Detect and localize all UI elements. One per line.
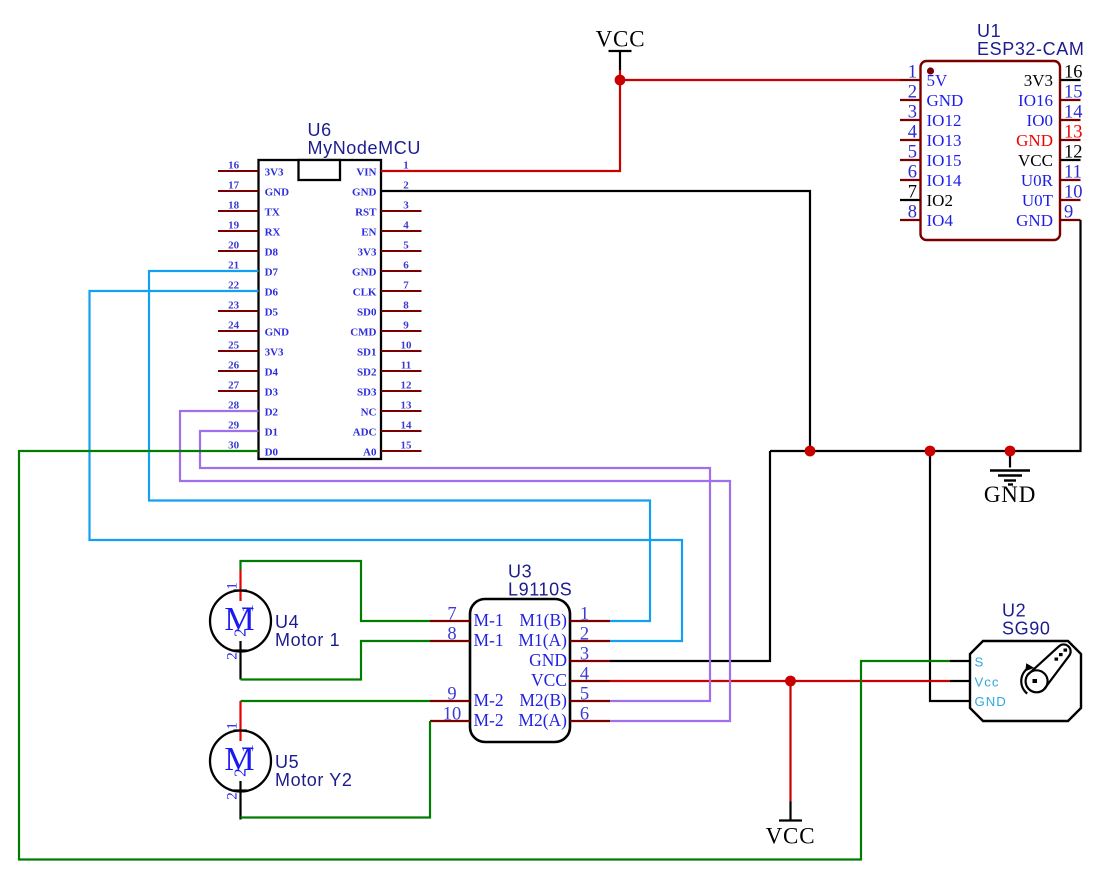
- U6 pin 14 (ADC): [381, 430, 422, 432]
- U6 pin 4 (EN): [381, 230, 422, 232]
- svg-text:Motor Y2: Motor Y2: [275, 770, 353, 790]
- U6 pin 13 (NC): [381, 410, 422, 412]
- junction GND at x1010: [1005, 446, 1016, 457]
- svg-text:27: 27: [228, 379, 240, 391]
- svg-text:GND: GND: [265, 326, 290, 338]
- svg-text:D5: D5: [265, 306, 279, 318]
- junction GND at x930: [925, 446, 936, 457]
- svg-text:20: 20: [228, 239, 240, 251]
- svg-text:GND: GND: [529, 650, 567, 670]
- svg-text:30: 30: [228, 439, 240, 451]
- U6 pin 5 (3V3): [381, 250, 422, 252]
- U3 pin 1 (M1(B)): [570, 620, 610, 622]
- svg-text:5: 5: [403, 239, 409, 251]
- svg-text:U0R: U0R: [1021, 171, 1054, 190]
- U6 pin 24 (GND): [218, 330, 259, 332]
- U6 pin 16 (3V3): [218, 170, 259, 172]
- svg-text:CLK: CLK: [353, 286, 377, 298]
- svg-text:2: 2: [403, 179, 409, 191]
- svg-text:D3: D3: [265, 386, 279, 398]
- U1 pin 16 (3V3): [1060, 79, 1081, 81]
- servo U2 SG90: [950, 600, 1081, 721]
- svg-text:VCC: VCC: [531, 670, 567, 690]
- wire U6 D7 to U3 M1(B) pin1 (blue): [149, 271, 650, 621]
- svg-text:10: 10: [401, 339, 413, 351]
- U6 pin 25 (3V3): [218, 350, 259, 352]
- svg-text:2: 2: [580, 625, 589, 645]
- svg-text:26: 26: [228, 359, 240, 371]
- U6 pin 23 (D5): [218, 310, 259, 312]
- svg-text:4: 4: [908, 123, 917, 143]
- power flag VCC (top): [596, 27, 646, 71]
- svg-text:3V3: 3V3: [1024, 71, 1053, 90]
- wire U6 GND to GND net (black): [381, 191, 810, 451]
- U1 pin 4 (IO13): [900, 139, 921, 141]
- svg-text:ESP32-CAM: ESP32-CAM: [977, 39, 1084, 59]
- svg-text:RX: RX: [265, 226, 281, 238]
- U2 servo horn graphic: [1026, 670, 1048, 692]
- U1 pin 15 (IO16): [1060, 99, 1081, 101]
- wire GND net to U3 GND pin3 (black): [610, 451, 770, 661]
- svg-text:TX: TX: [265, 206, 280, 218]
- U3 pin 7 (M-1): [430, 620, 470, 622]
- svg-text:8: 8: [908, 203, 917, 223]
- U1 pin 3 (IO12): [900, 119, 921, 121]
- power flag VCC (bottom): [766, 801, 816, 849]
- svg-text:D4: D4: [265, 366, 279, 378]
- svg-text:9: 9: [403, 319, 409, 331]
- svg-text:25: 25: [228, 339, 240, 351]
- svg-text:VCC: VCC: [1018, 151, 1053, 170]
- svg-text:3: 3: [403, 199, 409, 211]
- wire GND net to U2 GND (black): [930, 451, 950, 701]
- junction GND at x810: [805, 446, 816, 457]
- svg-text:12: 12: [401, 379, 413, 391]
- U6 pin 19 (RX): [218, 230, 259, 232]
- U1 pin 9 (GND): [1060, 219, 1081, 221]
- svg-text:SD3: SD3: [357, 386, 377, 398]
- svg-text:U0T: U0T: [1022, 191, 1054, 210]
- svg-text:14: 14: [401, 419, 413, 431]
- svg-text:M-2: M-2: [474, 690, 504, 710]
- wire VCC to U6 VIN (red): [381, 80, 620, 171]
- svg-text:19: 19: [228, 219, 240, 231]
- svg-text:6: 6: [403, 259, 409, 271]
- svg-text:9: 9: [1064, 203, 1073, 223]
- svg-text:1: 1: [225, 582, 241, 590]
- svg-text:SG90: SG90: [1002, 619, 1050, 639]
- svg-text:M-1: M-1: [474, 610, 504, 630]
- svg-text:6: 6: [908, 163, 917, 183]
- svg-text:NC: NC: [361, 406, 377, 418]
- wire U6 D0 to U2 S servo signal (green): [19, 451, 950, 860]
- svg-text:4: 4: [580, 665, 589, 685]
- svg-text:1: 1: [580, 605, 589, 625]
- U2 pin Vcc: [950, 680, 970, 682]
- U3 pin 8 (M-1): [430, 640, 470, 642]
- U6 pin 27 (D3): [218, 390, 259, 392]
- svg-text:17: 17: [228, 179, 240, 191]
- svg-text:M2(B): M2(B): [519, 690, 567, 710]
- svg-text:5: 5: [580, 685, 589, 705]
- wire U5 pin1 to U3 pin9 (green): [241, 700, 431, 702]
- svg-text:M2(A): M2(A): [518, 710, 567, 730]
- U6 pin 17 (GND): [218, 190, 259, 192]
- svg-text:7: 7: [908, 183, 917, 203]
- svg-text:SD2: SD2: [357, 366, 377, 378]
- svg-text:D6: D6: [265, 286, 279, 298]
- svg-text:GND: GND: [352, 266, 377, 278]
- svg-text:10: 10: [443, 705, 462, 725]
- wire VCC to U1 pin1 (red): [619, 70, 621, 80]
- svg-text:GND: GND: [1016, 211, 1053, 230]
- U1 pin 12 (VCC): [1060, 159, 1081, 161]
- svg-text:D7: D7: [265, 266, 279, 278]
- motor U4: [210, 570, 340, 680]
- svg-text:28: 28: [228, 399, 240, 411]
- U6 pin 8 (SD0): [381, 310, 422, 312]
- svg-text:GND: GND: [984, 482, 1036, 507]
- svg-text:1: 1: [238, 604, 257, 613]
- svg-text:VCC: VCC: [596, 27, 646, 52]
- U5 pin 2 stub: [239, 781, 241, 820]
- U4 pin 1 stub: [239, 570, 241, 601]
- svg-text:13: 13: [401, 399, 413, 411]
- U1 pin 13 (GND): [1060, 139, 1081, 141]
- svg-text:3: 3: [580, 645, 589, 665]
- svg-text:13: 13: [1064, 123, 1083, 143]
- svg-text:9: 9: [447, 685, 456, 705]
- svg-text:VCC: VCC: [766, 824, 816, 849]
- svg-text:12: 12: [1064, 143, 1083, 163]
- svg-text:10: 10: [1064, 183, 1083, 203]
- svg-text:22: 22: [228, 279, 240, 291]
- svg-text:IO13: IO13: [927, 131, 962, 150]
- U1 pin 1 (5V): [900, 79, 921, 81]
- svg-text:3V3: 3V3: [265, 346, 284, 358]
- svg-text:2: 2: [908, 83, 917, 103]
- svg-text:5V: 5V: [927, 71, 949, 90]
- U2 pin S: [950, 660, 970, 662]
- U4 pin 2 stub: [239, 641, 241, 680]
- U1 pin 11 (U0R): [1060, 179, 1081, 181]
- wire U6 D2 to U3 M2(A) pin6 (purple): [180, 411, 730, 721]
- svg-text:VIN: VIN: [356, 166, 376, 178]
- svg-text:GND: GND: [975, 694, 1007, 709]
- U1 pin 14 (IO0): [1060, 119, 1081, 121]
- svg-text:3: 3: [908, 103, 917, 123]
- svg-text:Vcc: Vcc: [975, 674, 1000, 689]
- wire VCC bottom riser (red): [789, 681, 791, 802]
- wire U5 pin2 to U3 pin10 (green): [241, 721, 431, 818]
- svg-text:SD1: SD1: [357, 346, 377, 358]
- svg-text:15: 15: [1064, 83, 1083, 103]
- svg-text:7: 7: [403, 279, 409, 291]
- svg-text:CMD: CMD: [350, 326, 376, 338]
- svg-text:15: 15: [401, 439, 413, 451]
- IC U3 L9110S: [430, 562, 610, 743]
- svg-text:U3: U3: [508, 562, 532, 582]
- U6 pin 7 (CLK): [381, 290, 422, 292]
- U3 pin 4 (VCC): [570, 680, 610, 682]
- U1 pin 7 (IO2): [900, 199, 921, 201]
- svg-text:IO16: IO16: [1018, 91, 1053, 110]
- wire U6 D6 to U3 M1(A) pin2 (blue): [90, 291, 683, 641]
- svg-text:3V3: 3V3: [265, 166, 284, 178]
- svg-text:D2: D2: [265, 406, 279, 418]
- U6 pin 26 (D4): [218, 370, 259, 372]
- svg-text:2: 2: [231, 768, 250, 777]
- U6 pin 12 (SD3): [381, 390, 422, 392]
- svg-text:14: 14: [1064, 103, 1083, 123]
- svg-text:MyNodeMCU: MyNodeMCU: [308, 138, 421, 158]
- junction VCC top: [615, 75, 626, 86]
- junction VCC bottom: [785, 676, 796, 687]
- svg-text:7: 7: [447, 605, 456, 625]
- svg-text:D0: D0: [265, 446, 279, 458]
- svg-text:1: 1: [403, 159, 409, 171]
- svg-text:21: 21: [228, 259, 239, 271]
- svg-text:GND: GND: [352, 186, 377, 198]
- U5 pin 1 stub: [239, 701, 241, 741]
- svg-text:11: 11: [1064, 163, 1082, 183]
- svg-text:11: 11: [401, 359, 411, 371]
- U1 pin 2 (GND): [900, 99, 921, 101]
- ground symbol GND: [984, 451, 1036, 507]
- svg-text:D1: D1: [265, 426, 278, 438]
- wire U1 pin9 GND down (black): [770, 220, 1081, 451]
- svg-text:16: 16: [1064, 63, 1083, 83]
- motor U5: [210, 701, 353, 820]
- U6 pin 3 (RST): [381, 210, 422, 212]
- svg-text:M-2: M-2: [474, 710, 504, 730]
- U6 pin 10 (SD1): [381, 350, 422, 352]
- svg-text:29: 29: [228, 419, 240, 431]
- svg-text:1: 1: [225, 722, 241, 730]
- IC U1 ESP32-CAM: [900, 21, 1084, 240]
- wire U4 pin1 to U3 pin7 (green): [241, 561, 431, 621]
- svg-text:SD0: SD0: [357, 306, 377, 318]
- svg-text:2: 2: [225, 652, 241, 660]
- svg-text:U6: U6: [308, 120, 332, 140]
- svg-text:ADC: ADC: [353, 426, 377, 438]
- svg-text:6: 6: [580, 705, 589, 725]
- svg-text:M1(B): M1(B): [519, 610, 567, 630]
- svg-text:IO0: IO0: [1027, 111, 1053, 130]
- svg-text:23: 23: [228, 299, 240, 311]
- U1 pin 5 (IO15): [900, 159, 921, 161]
- svg-text:IO12: IO12: [927, 111, 962, 130]
- svg-text:2: 2: [231, 628, 250, 637]
- svg-text:U4: U4: [275, 612, 299, 632]
- svg-text:EN: EN: [361, 226, 376, 238]
- U6 pin 6 (GND): [381, 270, 422, 272]
- svg-text:8: 8: [403, 299, 409, 311]
- svg-text:24: 24: [228, 319, 240, 331]
- svg-text:1: 1: [908, 63, 917, 83]
- U2 pin GND: [950, 700, 970, 702]
- svg-text:U1: U1: [977, 21, 1001, 41]
- U6 pin 18 (TX): [218, 210, 259, 212]
- U1 pin 6 (IO14): [900, 179, 921, 181]
- svg-text:IO14: IO14: [927, 171, 962, 190]
- svg-text:16: 16: [228, 159, 240, 171]
- U6 pin 9 (CMD): [381, 330, 422, 332]
- U3 pin 2 (M1(A)): [570, 640, 610, 642]
- svg-text:3V3: 3V3: [358, 246, 377, 258]
- svg-text:Motor 1: Motor 1: [275, 630, 340, 650]
- wire U4 pin2 to U3 pin8 (green): [241, 641, 431, 680]
- svg-text:D8: D8: [265, 246, 279, 258]
- svg-text:RST: RST: [355, 206, 377, 218]
- svg-text:IO15: IO15: [927, 151, 962, 170]
- U3 pin 3 (GND): [570, 660, 610, 662]
- U3 pin 10 (M-2): [430, 720, 470, 722]
- svg-text:U5: U5: [275, 752, 299, 772]
- U6 pin 15 (A0): [381, 450, 422, 452]
- svg-text:A0: A0: [363, 446, 377, 458]
- svg-text:L9110S: L9110S: [508, 580, 572, 600]
- svg-text:5: 5: [908, 143, 917, 163]
- svg-text:IO2: IO2: [927, 191, 953, 210]
- svg-text:1: 1: [238, 744, 257, 753]
- U6 pin 11 (SD2): [381, 370, 422, 372]
- U1 pin 8 (IO4): [900, 219, 921, 221]
- svg-text:GND: GND: [265, 186, 290, 198]
- U3 pin 5 (M2(B)): [570, 700, 610, 702]
- svg-text:4: 4: [403, 219, 409, 231]
- svg-text:IO4: IO4: [927, 211, 954, 230]
- svg-text:GND: GND: [927, 91, 964, 110]
- IC U6 MyNodeMCU: [218, 120, 422, 459]
- svg-text:2: 2: [225, 792, 241, 800]
- svg-text:M-1: M-1: [474, 630, 504, 650]
- svg-text:U2: U2: [1002, 600, 1026, 620]
- svg-text:M1(A): M1(A): [518, 630, 567, 650]
- wire U6 D1 to U3 M2(B) pin5 (purple): [200, 431, 710, 701]
- U3 pin 9 (M-2): [430, 700, 470, 702]
- U1 pin 10 (U0T): [1060, 199, 1081, 201]
- svg-text:8: 8: [447, 625, 456, 645]
- U6 pin 20 (D8): [218, 250, 259, 252]
- svg-text:S: S: [975, 654, 985, 669]
- svg-text:18: 18: [228, 199, 240, 211]
- U3 pin 6 (M2(A)): [570, 720, 610, 722]
- svg-text:GND: GND: [1016, 131, 1053, 150]
- wire U3 VCC pin4 to U2 Vcc (red): [610, 680, 950, 682]
